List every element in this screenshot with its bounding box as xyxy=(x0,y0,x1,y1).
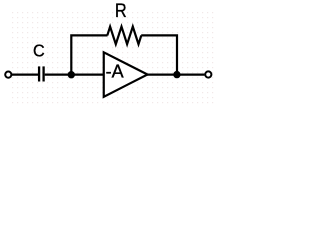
wire: op-amp output to output terminal xyxy=(147,73,205,75)
svg-text:-A: -A xyxy=(106,62,124,82)
resistor R (zigzag) xyxy=(107,27,141,45)
node junction (output) xyxy=(173,71,180,78)
svg-text:C: C xyxy=(33,41,45,61)
capacitor C (right plate) xyxy=(42,66,44,81)
wire: resistor to feedback riser right, down to output node xyxy=(141,35,177,74)
capacitor C (left plate) xyxy=(38,66,40,81)
op-amp U1 (triangle) xyxy=(104,52,148,97)
wire: capacitor to op-amp input xyxy=(45,73,104,75)
node junction (input) xyxy=(68,71,75,78)
svg-text:R: R xyxy=(115,0,127,21)
wire: input terminal to capacitor xyxy=(11,73,38,75)
output terminal (open circle) xyxy=(205,71,211,77)
input terminal (open circle) xyxy=(5,72,11,78)
wire: feedback riser left and top run to resistor xyxy=(71,35,107,74)
